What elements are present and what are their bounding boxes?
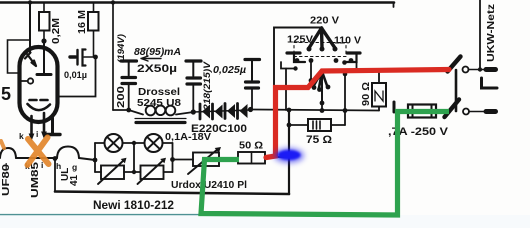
wire bus 194V to C1	[113, 109, 129, 111]
orange X marker	[28, 138, 49, 166]
svg-text:2X50µ: 2X50µ	[137, 63, 177, 75]
capacitor C2 stem	[192, 61, 194, 76]
rheostat R2 arrow	[138, 161, 164, 185]
svg-text:UM85: UM85	[30, 161, 41, 198]
lamp L2	[145, 134, 163, 152]
svg-text:0,1A-18V: 0,1A-18V	[165, 132, 211, 143]
wire lamp mid vertical	[133, 143, 135, 172]
wire 0,2M top lead	[43, 3, 45, 13]
svg-text:0,025µ: 0,025µ	[213, 65, 246, 76]
node junction top bus / 194V wire	[111, 0, 115, 4]
resistor 75R inner bars	[313, 121, 320, 129]
wire lamp top bus segment 1	[95, 142, 105, 144]
anode plate bar of tube	[37, 73, 51, 76]
capacitor C 0,01u left plate	[76, 50, 78, 65]
svg-text:g: g	[72, 162, 77, 172]
selector dashed bridge	[294, 43, 346, 57]
fuse 0,7A box	[408, 105, 436, 118]
svg-text:5: 5	[1, 84, 11, 104]
svg-text:i: i	[36, 129, 38, 139]
rectifier diode 1	[200, 104, 210, 119]
svg-text:88(95)mA: 88(95)mA	[134, 47, 181, 58]
wire 194V drop	[112, 3, 114, 111]
resistor 75R box	[308, 119, 331, 131]
node contact 220 right	[333, 47, 338, 52]
red marker path	[266, 70, 449, 158]
rectifier diode 2	[213, 104, 223, 119]
wire 16M bottom lead	[93, 31, 95, 58]
svg-text:(194V): (194V)	[116, 34, 126, 63]
wire 50R right to return riser	[265, 156, 289, 158]
rheostat R1 arrow	[98, 161, 124, 185]
node bus / 75R right	[343, 108, 348, 113]
wire UKW-Netz vertical	[479, 0, 481, 70]
wire lower bus to 90R	[251, 110, 380, 111]
wire choke to node	[176, 112, 194, 115]
choke core thin line	[135, 118, 186, 120]
wire upper contact to terminal	[469, 69, 487, 71]
wire C2 bottom lead	[192, 86, 194, 113]
node contact row2 a	[295, 58, 300, 63]
node rheostat mid	[132, 170, 136, 174]
tube heater pin arrow i	[43, 113, 46, 134]
selector crow foot center leg	[320, 28, 324, 48]
selector left hook stem	[294, 54, 305, 62]
node fan contact a	[309, 78, 314, 83]
wire lamp bank left vertical	[94, 143, 96, 172]
wire lamp top bus segment 2	[123, 142, 145, 144]
wire left contact drop	[281, 62, 296, 69]
capacitor C1 plate b	[122, 82, 136, 85]
wire slope into choke	[129, 110, 143, 115]
svg-text:200: 200	[116, 85, 127, 108]
tube pin circle	[28, 78, 33, 83]
node contact row2 d	[349, 58, 354, 63]
node right hook foot	[342, 60, 347, 65]
switch lower contact circle	[463, 109, 469, 115]
wire from junction down right of tube	[58, 57, 96, 97]
node left contact wire	[293, 66, 297, 70]
svg-text:90 Ω: 90 Ω	[361, 82, 372, 106]
node contact 220 left	[307, 47, 312, 52]
capacitor C1 stem	[128, 61, 130, 76]
tube grid arrow	[25, 53, 36, 67]
capacitor C3 plate a	[246, 80, 259, 83]
node fan contact c	[317, 87, 322, 92]
selector right hook stem	[344, 54, 357, 62]
wire lower contact to terminal	[469, 111, 486, 113]
capacitor C 0,01u right plate bracket	[83, 50, 86, 66]
capacitor C2 50u top bar	[186, 59, 201, 62]
wire top bus end stub	[393, 3, 395, 8]
wire lamp bank to Urdox	[173, 159, 194, 161]
node C2 bus junction	[191, 109, 196, 114]
wire 90R bottom lead	[378, 107, 380, 111]
node C1 bus junction	[126, 108, 131, 113]
node lamp bank left	[93, 158, 98, 163]
choke core thick bar	[136, 121, 185, 124]
svg-text:UKW-Netz: UKW-Netz	[485, 4, 497, 62]
svg-text:41: 41	[69, 174, 80, 186]
node 75R left	[287, 123, 292, 128]
svg-text:218(215)V: 218(215)V	[202, 61, 212, 111]
terminal upper bar	[486, 67, 496, 72]
tube cathode dash right	[41, 99, 48, 102]
tube heater pin arrow k	[30, 116, 33, 136]
wire left selector to bus	[285, 69, 287, 111]
capacitor C3 0,025u top bar	[245, 58, 260, 61]
capacitor C1 50u top bar	[121, 59, 137, 62]
svg-text:Drossel: Drossel	[138, 87, 180, 98]
tube target arc	[28, 104, 51, 110]
tube cathode dash left	[30, 99, 37, 102]
wire C3 bottom lead	[251, 90, 253, 110]
inductor choke loops	[146, 106, 176, 116]
lamp L1	[105, 134, 123, 152]
wire C1 bottom lead	[128, 85, 130, 110]
selector crow foot right leg	[322, 28, 336, 48]
wire heater to lamp bank	[79, 158, 95, 160]
heater chain hump UF80	[0, 148, 16, 158]
svg-text:UF80: UF80	[1, 163, 12, 196]
node bus / return drop	[287, 108, 292, 113]
wire right contact drop	[356, 62, 358, 71]
rectifier E220C100 wire	[193, 110, 250, 112]
svg-text:Newi 1810-212: Newi 1810-212	[93, 198, 174, 212]
switch upper lever	[448, 57, 461, 72]
fuse left stub	[393, 102, 396, 112]
blue marker blob	[274, 148, 304, 163]
orange edge tick	[1, 141, 4, 148]
node heater junction	[53, 156, 58, 161]
capacitor C2 plate a	[187, 76, 201, 79]
wire 75R right lead	[331, 124, 345, 126]
selector crow foot left leg	[309, 28, 322, 48]
rectifier diode 3	[225, 104, 235, 119]
svg-text:220 V: 220 V	[310, 15, 339, 27]
bottom scan strip	[0, 215, 530, 228]
svg-text:16 M: 16 M	[77, 10, 88, 34]
node lamp mid top	[132, 141, 136, 145]
wire anode lead inside tube	[43, 41, 45, 73]
heater chain hump UL41	[57, 147, 79, 159]
node contact 220 mid	[320, 47, 325, 52]
capacitor C3 stem	[251, 60, 253, 81]
terminal lower bar	[486, 109, 496, 114]
wire rheostat bus segment 1	[95, 171, 101, 173]
selector box outline	[274, 28, 322, 88]
wire 75R left lead	[289, 124, 308, 126]
scan edge rule	[0, 214, 398, 216]
svg-text:110 V: 110 V	[334, 35, 361, 47]
wire 16M top lead	[93, 3, 95, 13]
capacitor C 0,01u left stub	[70, 55, 76, 58]
varistor Urdox box	[193, 153, 219, 167]
svg-text:k: k	[19, 131, 24, 141]
wire heater return drop	[54, 159, 56, 192]
wire fan stem	[321, 72, 323, 104]
selector fan pivot spokes	[314, 72, 328, 89]
switch link bar	[455, 70, 458, 111]
selector right hook bar	[347, 51, 360, 54]
capacitor C3 plate b	[246, 86, 259, 89]
wire contact b drop	[310, 61, 312, 81]
svg-text:Urdox U2410 Pl: Urdox U2410 Pl	[171, 179, 247, 191]
resistor 90R box	[372, 83, 386, 107]
wire lamp right vertical	[172, 143, 174, 172]
svg-text:75 Ω: 75 Ω	[306, 134, 332, 146]
switch upper contact circle	[463, 67, 469, 73]
wire selector to switch (under red)	[322, 70, 449, 72]
resistor 0,2M	[39, 12, 50, 31]
capacitor C1 plate a	[122, 76, 136, 79]
node fan contact b	[312, 85, 317, 90]
wire lamp top bus segment 3	[163, 142, 173, 144]
svg-text:0,2M: 0,2M	[51, 18, 62, 44]
tube third lead	[51, 118, 54, 133]
resistor 50R box	[238, 152, 265, 164]
capacitor C2 plate b	[187, 82, 201, 85]
terminal hook second	[482, 78, 498, 88]
node junction top bus / grid wire	[28, 0, 32, 4]
node UKW junction	[478, 67, 482, 71]
node fan contact d	[326, 85, 331, 90]
node bus / selector stem	[320, 108, 325, 113]
wire rheostat bus segment 2	[124, 171, 141, 173]
fuse end cap left	[412, 105, 414, 118]
node contact row2 b	[309, 58, 314, 63]
svg-text:50 Ω: 50 Ω	[239, 140, 263, 152]
node lamp bank right	[170, 157, 175, 162]
wire rheostat bus segment 3	[164, 171, 173, 173]
svg-text:0,01µ: 0,01µ	[64, 70, 87, 81]
green marker path	[201, 112, 449, 216]
wire Urdox to 50R (under green)	[219, 159, 238, 161]
wire grid return box left	[8, 40, 30, 73]
wire 90R top lead	[378, 71, 380, 84]
wire fuse left lead	[394, 110, 408, 112]
switch lower lever	[445, 100, 460, 118]
wire heater chain k-i section	[16, 157, 57, 159]
resistor 50R divider	[251, 152, 253, 164]
selector left hook bar	[287, 51, 300, 54]
wire cap 0,01u right lead	[84, 56, 96, 58]
wire fan stem to bus	[321, 103, 323, 111]
rectifier diode 4	[238, 104, 248, 119]
wire top supply bus	[0, 1, 394, 4]
wire return riser	[288, 110, 290, 194]
wire grid drop from top bus into tube	[29, 3, 31, 54]
fuse end cap right	[431, 105, 433, 118]
node anode top cap	[41, 38, 46, 43]
wire fuse right lead	[436, 111, 448, 112]
rheostat R2 box	[141, 166, 164, 180]
node fan stem	[320, 101, 325, 106]
node cap 0,01u / 16M junction	[93, 55, 98, 60]
resistor 90R inner mark	[375, 91, 383, 101]
wire 345 vertical	[344, 72, 346, 125]
rheostat R1 box	[101, 166, 124, 180]
node 345 bus top	[343, 72, 348, 77]
wire 0,2M bottom lead	[43, 31, 45, 42]
wire into pin circle	[22, 80, 28, 82]
arrow under 88(95)mA	[141, 56, 161, 61]
wire bottom return run	[55, 192, 289, 195]
node contact row2 c	[334, 58, 339, 63]
varistor Urdox arrow	[188, 149, 219, 175]
resistor 16M	[88, 12, 99, 31]
tube third lead foot bar	[46, 133, 60, 136]
tube U5 envelope	[20, 47, 58, 122]
svg-text:125V: 125V	[287, 34, 313, 46]
node rectifier right junction	[248, 107, 253, 112]
